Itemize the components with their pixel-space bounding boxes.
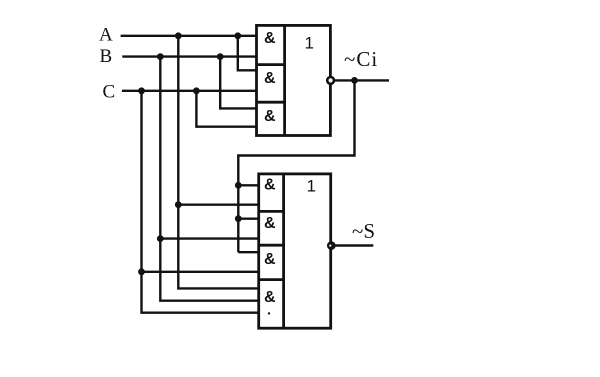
junction node on B line (branch to U2) [157, 53, 164, 60]
wire B branch to U1 gate3 [220, 57, 256, 109]
wire C branch down to U2 [142, 91, 259, 313]
junction node on A line (branch to U2) [175, 32, 182, 39]
svg-text:~S: ~S [352, 219, 375, 243]
junction node ~Ci to U2 gate1 [235, 182, 242, 189]
wire input A horizontal [121, 35, 257, 37]
junction node on C line (branch to U2) [138, 87, 145, 94]
wire input C horizontal [122, 90, 257, 92]
U2 column divider [282, 174, 285, 328]
svg-text:&: & [264, 108, 276, 125]
U1 column divider [283, 25, 286, 135]
U2 AND cell divider 1 [259, 210, 284, 213]
svg-text:1: 1 [307, 177, 316, 196]
wire ~Ci stub to U2 gate1 [238, 184, 258, 186]
gate block U1 outline (NAND: 3 AND cells + OR cell) [257, 25, 331, 135]
wire ~Ci stub to U2 gate3 [238, 251, 258, 253]
junction node on ~Ci output [351, 77, 358, 84]
wire ~S output [335, 244, 373, 246]
junction node on B line (branch to U1 gate3) [217, 53, 224, 60]
U2 AND cell divider 3 [259, 278, 284, 281]
junction node on A line (branch to U1 gate2) [234, 32, 241, 39]
wire A branch down to U2 [178, 36, 258, 289]
U1 output inversion bubble [327, 77, 334, 84]
wire ~Ci stub to U2 gate2 [238, 217, 258, 219]
wire C stub to U2 gate3 [142, 271, 259, 273]
stray ink dot in U2 cell4 [268, 312, 270, 314]
junction node B vertical to U2 gate2 [157, 235, 164, 242]
svg-text:A: A [99, 25, 113, 46]
svg-text:&: & [264, 30, 276, 47]
svg-text:B: B [100, 46, 113, 67]
svg-text:1: 1 [305, 34, 314, 53]
wire ~Ci feedback to U2 [238, 80, 354, 252]
junction node C vertical to U2 gate3 [138, 268, 145, 275]
junction node on C line (branch to U1 gate3) [193, 87, 200, 94]
junction node ~Ci to U2 gate2 [235, 215, 242, 222]
U1 AND cell divider 2 [257, 101, 285, 104]
wire B branch down to U2 [160, 57, 258, 301]
U2 output inversion bubble [327, 241, 336, 250]
wire C branch to U1 gate3 [196, 91, 256, 127]
svg-text:&: & [264, 289, 276, 306]
svg-text:&: & [264, 251, 276, 268]
wire A branch to U1 gate2 [238, 36, 257, 71]
gate block U2 outline (NAND: 4 AND cells + OR cell) [259, 174, 331, 328]
wire ~Ci output [335, 79, 390, 81]
svg-text:~Ci: ~Ci [344, 47, 378, 71]
U2 AND cell divider 2 [259, 244, 284, 247]
wire A stub to U2 gate1 [178, 203, 258, 205]
wire B stub to U2 gate2 [160, 237, 258, 239]
wire input B horizontal [122, 55, 256, 57]
U1 AND cell divider 1 [257, 63, 285, 66]
svg-text:&: & [264, 215, 276, 232]
svg-text:&: & [264, 70, 276, 87]
junction node A vertical to U2 gate1 [175, 201, 182, 208]
svg-text:C: C [103, 82, 116, 103]
svg-text:&: & [264, 177, 276, 194]
